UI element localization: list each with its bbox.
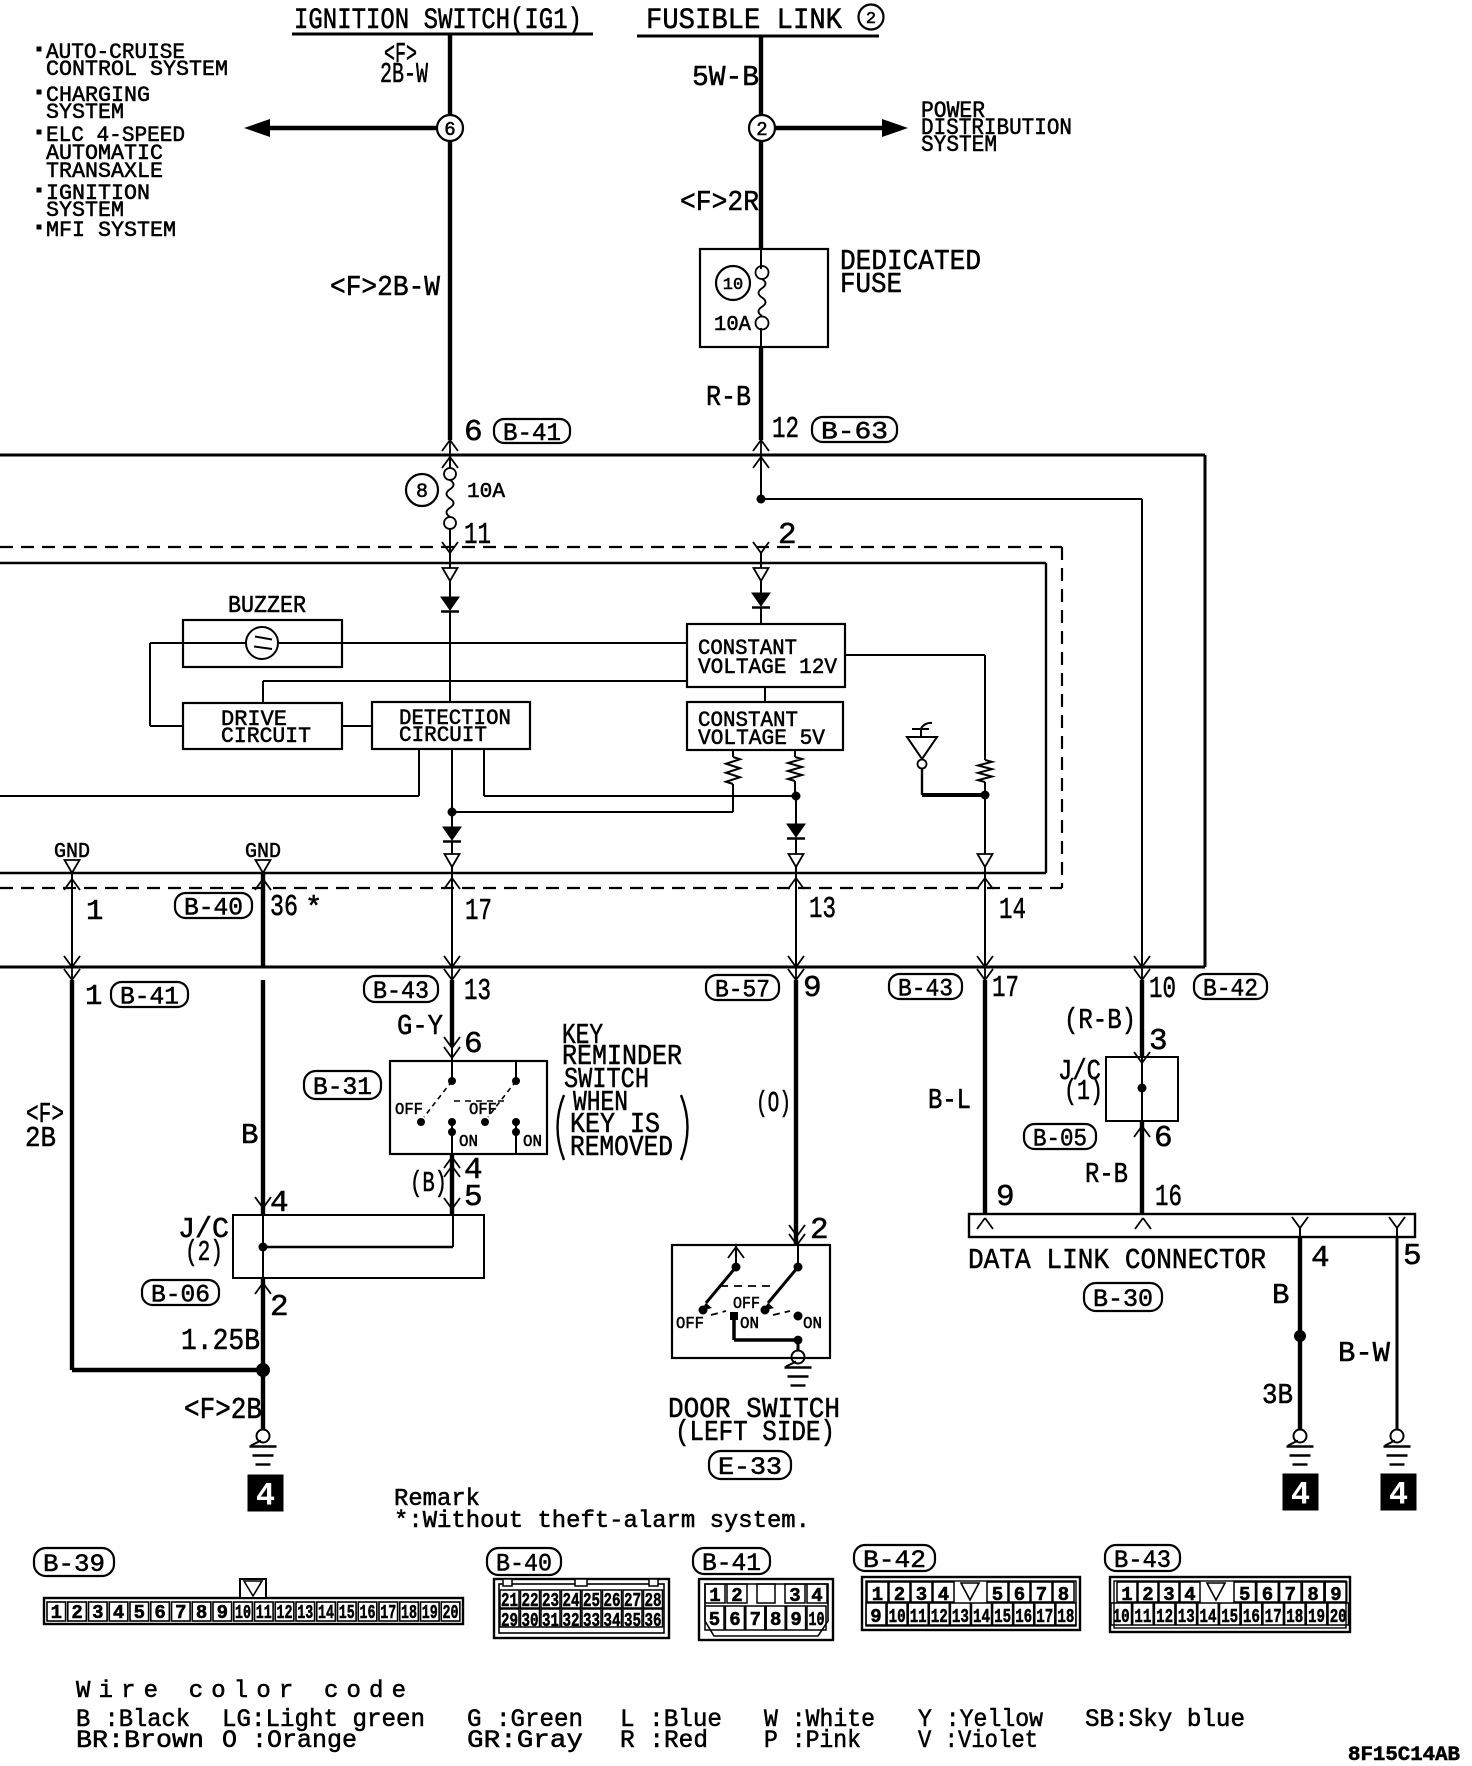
svg-text:BUZZER: BUZZER: [228, 593, 306, 620]
svg-text:8: 8: [196, 1602, 207, 1624]
wire 12V box right output: [845, 654, 985, 656]
wire buzzer left loop to drive circuit: [149, 643, 151, 726]
svg-text:VOLTAGE 12V: VOLTAGE 12V: [698, 655, 838, 680]
pin 17 dashed crossing: [444, 878, 452, 889]
sensor symbol: [912, 728, 929, 730]
bus crossing forks x1142: [1141, 955, 1143, 980]
svg-text:B-57: B-57: [715, 975, 770, 1004]
ETACS inner box right: [1045, 563, 1047, 873]
svg-text:12: 12: [1156, 1606, 1173, 1628]
svg-text:3: 3: [1149, 1024, 1168, 1059]
svg-text:6: 6: [464, 1027, 483, 1062]
svg-text:18: 18: [1057, 1606, 1074, 1628]
connector B-43 pin 17 labels: [889, 974, 962, 999]
svg-text:MFI SYSTEM: MFI SYSTEM: [46, 218, 176, 243]
wire O from ETACS pin 9 to door switch: [794, 980, 798, 1245]
svg-text:CONTROL SYSTEM: CONTROL SYSTEM: [46, 57, 228, 82]
svg-text:R-B: R-B: [706, 381, 751, 414]
exit triangle pin 17: [451, 842, 453, 854]
parenthesis marks: [558, 1095, 565, 1160]
svg-text:OFF: OFF: [469, 1101, 497, 1120]
entry triangle battery line: [760, 563, 762, 568]
wire fuse 8 to ETACS pin 11: [449, 529, 451, 553]
page reference black box 4 middle: [1283, 1474, 1318, 1510]
svg-text:15: 15: [1221, 1606, 1238, 1628]
svg-text:14: 14: [318, 1602, 334, 1624]
svg-text:16: 16: [360, 1602, 376, 1624]
wire key switch pin4 to J/C(2) pin 5: [450, 1154, 454, 1215]
wire drive circuit top to constant voltage 12V: [262, 681, 264, 703]
wire B from data link pin 4: [1298, 1237, 1302, 1430]
wire F 2B left feed: [70, 980, 74, 1370]
wire pin12 to ETACS pin 2: [760, 457, 762, 499]
svg-text:2: 2: [731, 1585, 742, 1607]
svg-text:P :Pink: P :Pink: [764, 1726, 861, 1755]
svg-text:13: 13: [809, 892, 836, 927]
svg-text:20: 20: [443, 1602, 459, 1624]
wire ETACS pin 1: [71, 873, 73, 967]
svg-text:12: 12: [277, 1602, 293, 1624]
svg-text:B-30: B-30: [1093, 1285, 1153, 1314]
door switch ground link: [732, 1316, 736, 1340]
svg-text:8: 8: [416, 481, 428, 504]
wire pin13 to bus: [795, 888, 797, 967]
connector fork marks pin6: [449, 440, 451, 457]
connector diagram B-43 body: [1110, 1577, 1350, 1632]
svg-text:SYSTEM: SYSTEM: [46, 100, 124, 125]
svg-text:6: 6: [1154, 1121, 1173, 1156]
door switch box: [672, 1245, 830, 1358]
connector B-05 capsule: [1024, 1124, 1096, 1149]
bus crossing forks x796: [795, 955, 797, 980]
resistor left under 5V box: [732, 750, 734, 757]
note list of connected systems: [37, 47, 42, 52]
key reminder switch pole 2: [515, 1061, 517, 1081]
pin 13 dashed crossing: [788, 878, 796, 889]
svg-text:4: 4: [1389, 1477, 1408, 1514]
svg-text:GR:Gray: GR:Gray: [467, 1726, 583, 1755]
junction circle 2: [749, 115, 775, 141]
svg-text:8: 8: [770, 1609, 781, 1631]
bus crossing forks x985: [984, 955, 986, 980]
diode pin17 output: [451, 812, 453, 827]
connector B-31 capsule: [304, 1071, 381, 1099]
wire bus to left modules: [0, 795, 419, 797]
svg-text:16: 16: [1155, 1180, 1182, 1215]
svg-text:B-41: B-41: [120, 982, 179, 1011]
svg-text:9: 9: [803, 971, 822, 1006]
svg-text:FUSIBLE LINK: FUSIBLE LINK: [646, 4, 842, 38]
svg-text:ON: ON: [523, 1133, 542, 1152]
svg-text:V :Violet: V :Violet: [918, 1726, 1038, 1755]
svg-text:12: 12: [772, 412, 799, 447]
svg-text:16: 16: [1015, 1606, 1032, 1628]
svg-text:2: 2: [270, 1290, 289, 1325]
svg-text:3: 3: [92, 1602, 103, 1624]
wire fusible link feed vertical 5W-B: [759, 36, 763, 115]
svg-text:10A: 10A: [714, 314, 751, 337]
junction circle 6: [437, 115, 463, 141]
wire B-42 branch vertical: [1141, 499, 1143, 967]
svg-text:10: 10: [809, 1609, 825, 1631]
resistor right under 5V box: [794, 750, 796, 757]
svg-text:1: 1: [86, 895, 103, 928]
node junction 1.25B: [256, 1363, 270, 1377]
svg-text:B-42: B-42: [1203, 974, 1258, 1003]
wire fuse to bus R-B: [759, 347, 763, 440]
svg-text:(1): (1): [1064, 1075, 1103, 1108]
svg-text:31: 31: [542, 1610, 559, 1632]
svg-text:<F>2R: <F>2R: [680, 186, 759, 219]
svg-text:10: 10: [723, 276, 743, 295]
svg-text:2B: 2B: [25, 1122, 56, 1155]
svg-text:(LEFT SIDE): (LEFT SIDE): [675, 1416, 835, 1449]
svg-text:4: 4: [256, 1478, 275, 1515]
svg-text:1.25B: 1.25B: [181, 1324, 260, 1359]
wire ignition switch feed vertical 2B-W: [448, 34, 452, 122]
svg-text:5: 5: [134, 1602, 145, 1624]
detection circuit box: [372, 702, 530, 749]
wire detection bottom left output: [418, 749, 420, 796]
circled 8 fuse number: [406, 474, 438, 506]
svg-text:B-39: B-39: [43, 1550, 105, 1579]
wire sensor to node: [921, 768, 923, 795]
junction block bus top edge: [0, 454, 1205, 457]
door switch pole 1: [735, 1245, 737, 1267]
connector diagram B-39 body: [44, 1598, 463, 1624]
svg-text:9: 9: [217, 1602, 228, 1624]
circled 2 fusible link number: [859, 5, 884, 30]
svg-text:(2): (2): [185, 1236, 223, 1269]
pin 16 fork: [1135, 1218, 1143, 1229]
ETACS unit dashed boundary bottom: [0, 887, 1062, 889]
svg-text:33: 33: [583, 1610, 600, 1632]
svg-text:CIRCUIT: CIRCUIT: [399, 723, 487, 748]
svg-text:4: 4: [811, 1585, 822, 1607]
wire detection bottom right output: [483, 749, 485, 796]
svg-text:14: 14: [999, 893, 1026, 928]
connector E-33 capsule: [709, 1451, 791, 1479]
buzzer symbol circle: [150, 642, 246, 644]
dedicated fuse box: [700, 249, 828, 347]
wire pin17 to bus: [451, 888, 453, 967]
svg-text:29: 29: [501, 1610, 518, 1632]
svg-text:18: 18: [401, 1602, 417, 1624]
svg-text:B-06: B-06: [151, 1280, 210, 1309]
svg-text:36: 36: [270, 890, 298, 925]
connector diagram B-42 capsule: [854, 1545, 935, 1571]
drive circuit box: [183, 703, 342, 749]
wire R-B to J/C(1): [1140, 980, 1144, 1057]
svg-text:R :Red: R :Red: [620, 1726, 708, 1755]
svg-text:2: 2: [866, 10, 876, 29]
wire branch arrow to left systems: [268, 126, 448, 130]
fuse element symbol: [756, 266, 769, 279]
svg-text:13: 13: [952, 1606, 969, 1628]
wire R-B to data link connector: [1140, 1121, 1144, 1214]
connector diagram B-40 capsule: [487, 1548, 561, 1575]
svg-text:<F>2B: <F>2B: [184, 1393, 262, 1428]
connector diagram B-43 capsule: [1105, 1545, 1180, 1571]
wire B from B-40 pin 36: [261, 980, 265, 1215]
svg-text:4: 4: [113, 1602, 124, 1624]
svg-text:3B: 3B: [1262, 1379, 1293, 1412]
connector B-40 pin 36 labels: [175, 893, 252, 918]
door switch pole 2: [797, 1245, 799, 1267]
svg-text:16: 16: [1243, 1606, 1260, 1628]
exit triangle pin 14: [984, 795, 986, 854]
svg-text:FUSE: FUSE: [840, 268, 902, 301]
svg-text:B-43: B-43: [373, 977, 429, 1006]
junction block right edge: [1204, 455, 1207, 967]
svg-text:9: 9: [790, 1609, 801, 1631]
svg-text:6: 6: [464, 415, 483, 450]
svg-text:6: 6: [154, 1602, 165, 1624]
svg-text:VOLTAGE 5V: VOLTAGE 5V: [698, 726, 826, 751]
svg-text:30: 30: [522, 1610, 539, 1632]
svg-text:6: 6: [729, 1609, 740, 1631]
diode ignition feed: [449, 581, 451, 597]
svg-text:17: 17: [380, 1602, 396, 1624]
svg-text:ON: ON: [740, 1315, 759, 1334]
wire main line through detection box: [451, 749, 453, 812]
page reference black box 4 right: [1381, 1474, 1416, 1510]
svg-text:19: 19: [422, 1602, 438, 1624]
svg-text:O :Orange: O :Orange: [222, 1726, 357, 1755]
wire pin6 to fuse 8: [449, 457, 451, 468]
svg-text:REMOVED: REMOVED: [570, 1131, 673, 1164]
svg-text:OFF: OFF: [676, 1315, 704, 1334]
diode battery feed: [760, 581, 762, 593]
svg-text:E-33: E-33: [718, 1453, 782, 1482]
fuse 8 element: [444, 468, 456, 480]
svg-text:17: 17: [992, 971, 1019, 1006]
wire B-L ETACS pin 14 to data link connector: [983, 980, 987, 1214]
svg-text:18: 18: [1286, 1606, 1303, 1628]
node sensor junction: [981, 791, 990, 800]
svg-text:B-40: B-40: [496, 1549, 552, 1578]
connector B-57 pin 9 labels: [706, 975, 779, 1000]
svg-text:10: 10: [889, 1606, 906, 1628]
svg-text:B-40: B-40: [184, 893, 243, 922]
node inside J/C(1): [1138, 1084, 1147, 1093]
connector diagram B-41 capsule: [693, 1548, 770, 1574]
svg-text:B-W: B-W: [1338, 1337, 1391, 1370]
wire 1.25B to ground: [261, 1278, 265, 1370]
svg-text:B-41: B-41: [702, 1549, 761, 1578]
svg-text:35: 35: [624, 1610, 641, 1632]
pin 4 fork: [1292, 1217, 1300, 1228]
pin 5 fork: [1389, 1217, 1397, 1228]
door switch linkage dashed: [720, 1285, 773, 1287]
svg-text:5: 5: [464, 1180, 483, 1215]
svg-text:36: 36: [645, 1610, 662, 1632]
pin 2 fork out of J/C(2): [255, 1283, 263, 1294]
wire horizontal to B-42 branch: [761, 498, 1142, 500]
ground symbol data link B: [1294, 1430, 1307, 1443]
svg-text:12: 12: [931, 1606, 948, 1628]
constant voltage 12V box: [687, 624, 845, 687]
connector diagram B-41 body: [699, 1579, 833, 1640]
svg-text:5W-B: 5W-B: [692, 61, 759, 94]
entry fork pin 2: [753, 542, 761, 553]
connector diagram B-42 body: [862, 1577, 1080, 1630]
junction connector J/C(1) box: [1106, 1057, 1178, 1121]
svg-text:9: 9: [870, 1606, 881, 1628]
svg-text:(B): (B): [410, 1167, 447, 1200]
svg-text:*: *: [305, 892, 322, 925]
svg-text:13: 13: [297, 1602, 313, 1624]
key reminder switch linkage dashed: [454, 1100, 509, 1102]
svg-text:17: 17: [1036, 1606, 1053, 1628]
svg-text:DATA LINK CONNECTOR: DATA LINK CONNECTOR: [968, 1244, 1266, 1277]
wire 12V to 5V box: [764, 687, 766, 702]
circled 10 fuse number: [716, 266, 750, 300]
node splice 3B: [1294, 1330, 1306, 1342]
connector B-43 pin 13 labels: [364, 976, 438, 1002]
wire branch arrow to power distribution: [776, 126, 884, 130]
page reference black box 4 left: [248, 1475, 283, 1511]
svg-text:SB:Sky blue: SB:Sky blue: [1085, 1705, 1245, 1734]
svg-text:1: 1: [709, 1585, 720, 1607]
svg-text:2: 2: [71, 1602, 82, 1624]
svg-text:BR:Brown: BR:Brown: [76, 1726, 204, 1755]
ETACS unit dashed boundary top: [0, 546, 1062, 548]
svg-text:11: 11: [256, 1602, 272, 1624]
node splice to diagnostic feed: [757, 495, 766, 504]
data link connector bar B-30: [969, 1214, 1415, 1237]
wire pin14 to bus: [984, 888, 986, 967]
svg-text:19: 19: [1308, 1606, 1325, 1628]
resistor diagnostic pull-up: [978, 760, 992, 782]
svg-text:4: 4: [1311, 1241, 1330, 1276]
svg-text:14: 14: [973, 1606, 990, 1628]
ETACS unit dashed boundary right: [1061, 547, 1063, 888]
svg-text:<F>2B-W: <F>2B-W: [330, 271, 441, 304]
svg-text:13: 13: [1178, 1606, 1195, 1628]
svg-text:11: 11: [464, 518, 491, 553]
connector B-06 capsule: [142, 1280, 219, 1305]
svg-text:17: 17: [1265, 1606, 1282, 1628]
pin 14 dashed crossing: [977, 878, 985, 889]
svg-text:B: B: [241, 1119, 258, 1152]
svg-text:B-31: B-31: [313, 1073, 372, 1102]
bus crossing forks x452: [451, 955, 453, 980]
svg-text:B-63: B-63: [821, 417, 888, 446]
svg-text:OFF: OFF: [395, 1101, 423, 1120]
svg-text:7: 7: [175, 1602, 186, 1624]
svg-text:17: 17: [465, 894, 492, 929]
svg-text:2: 2: [810, 1213, 829, 1248]
svg-text:R-B: R-B: [1085, 1158, 1128, 1191]
svg-text:10: 10: [1149, 972, 1176, 1007]
ETACS inner box top: [0, 562, 1046, 564]
svg-text:*:Without theft-alarm system.: *:Without theft-alarm system.: [394, 1508, 810, 1535]
svg-text:9: 9: [996, 1180, 1015, 1215]
wire J/C(2) internal link: [262, 1215, 264, 1278]
wire drive to detection circuit: [342, 725, 372, 727]
connector fork marks pin12: [760, 440, 762, 457]
svg-text:1: 1: [85, 980, 102, 1013]
svg-text:34: 34: [604, 1610, 621, 1632]
wire B-W from data link pin 5: [1396, 1237, 1399, 1430]
svg-text:3: 3: [789, 1585, 800, 1607]
wire ETACS pin 36: [261, 873, 265, 967]
svg-text:2: 2: [778, 518, 797, 553]
entry triangle ignition line: [449, 563, 451, 568]
svg-text:10: 10: [1113, 1606, 1130, 1628]
svg-text:G-Y: G-Y: [397, 1010, 443, 1043]
svg-text:15: 15: [994, 1606, 1011, 1628]
svg-text:B-L: B-L: [928, 1084, 971, 1117]
key reminder switch pole 1: [451, 1061, 453, 1081]
svg-text:ON: ON: [459, 1133, 478, 1152]
junction connector J/C(2) box: [233, 1215, 484, 1278]
diode pin13 output: [795, 796, 797, 824]
exit triangle pin 13: [795, 838, 797, 854]
pin 6 fork out of J/C(1): [1134, 1126, 1142, 1137]
bus crossing forks x72: [71, 955, 73, 980]
connector diagram B-39 capsule: [34, 1548, 114, 1576]
connector diagram B-40 body: [494, 1579, 669, 1638]
svg-text:(R-B): (R-B): [1064, 1004, 1136, 1037]
connector B-30 capsule: [1084, 1283, 1162, 1311]
entry fork pin 11: [442, 542, 450, 553]
svg-text:B-41: B-41: [503, 419, 561, 448]
svg-text:ON: ON: [803, 1315, 822, 1334]
svg-text:B-42: B-42: [863, 1546, 926, 1575]
svg-text:1: 1: [51, 1602, 62, 1624]
svg-text:4: 4: [1291, 1477, 1310, 1514]
wire main line node to left resistor: [448, 808, 457, 817]
svg-text:Wire color code: Wire color code: [76, 1678, 406, 1705]
pin 9 fork: [977, 1218, 985, 1229]
svg-text:5: 5: [1403, 1239, 1422, 1274]
pin 3 fork into J/C(1): [1134, 1052, 1142, 1063]
svg-text:14: 14: [1200, 1606, 1217, 1628]
svg-text:2: 2: [756, 119, 767, 141]
svg-text:13: 13: [464, 974, 491, 1009]
ETACS inner box bottom: [0, 872, 1046, 874]
svg-text:10A: 10A: [467, 481, 505, 504]
svg-text:(O): (O): [756, 1087, 791, 1120]
pin 4 fork into J/C(2): [255, 1197, 263, 1208]
constant voltage 5V box: [687, 702, 843, 750]
svg-text:B: B: [1272, 1279, 1289, 1312]
key reminder switch box B-31: [390, 1061, 547, 1154]
junction block bus bottom edge: [0, 966, 1205, 969]
svg-text:15: 15: [339, 1602, 355, 1624]
svg-text:20: 20: [1330, 1606, 1347, 1628]
svg-text:B-05: B-05: [1033, 1124, 1087, 1153]
svg-text:11: 11: [1134, 1606, 1151, 1628]
ground symbol data link B-W: [1391, 1430, 1404, 1443]
svg-text:6: 6: [444, 119, 455, 141]
node detection to resistor: [792, 792, 801, 801]
svg-text:10: 10: [235, 1602, 251, 1624]
svg-text:B-43: B-43: [898, 974, 953, 1003]
pin 6 fork into key reminder switch: [444, 1037, 452, 1048]
svg-text:OFF: OFF: [733, 1295, 760, 1314]
wire buzzer to constant voltage 12V box: [278, 642, 687, 644]
wire G-Y ETACS pin13 to key reminder switch: [450, 980, 454, 1046]
door switch ground symbol: [792, 1351, 805, 1364]
svg-text:8F15C14AB: 8F15C14AB: [1348, 1744, 1460, 1766]
buzzer box: [183, 620, 342, 667]
pin 2 fork into door switch: [789, 1225, 797, 1236]
svg-text:5: 5: [709, 1609, 720, 1631]
svg-text:SYSTEM: SYSTEM: [921, 132, 997, 158]
